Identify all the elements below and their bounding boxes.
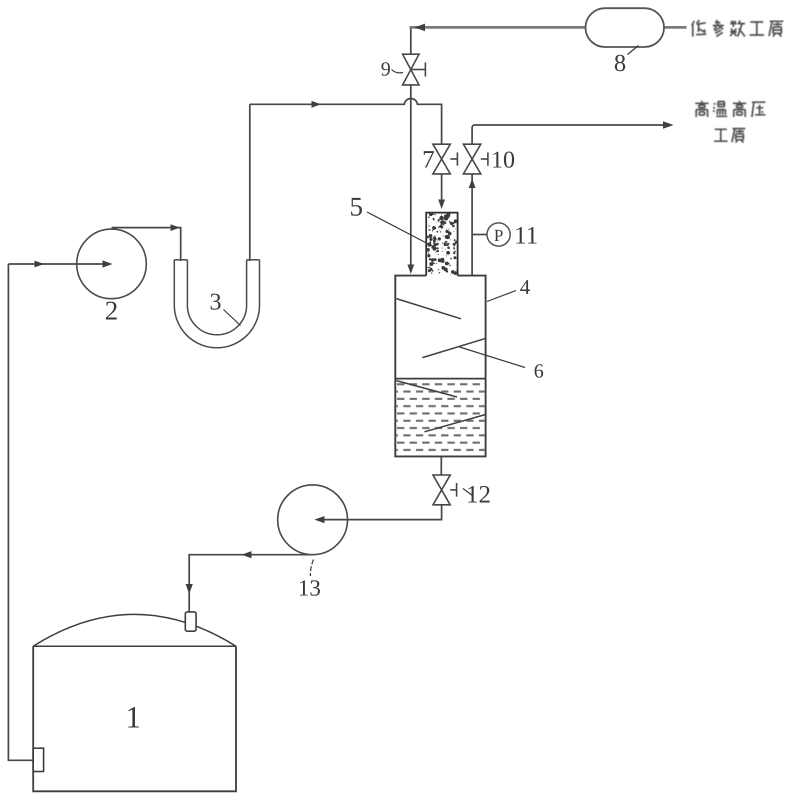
U-tube 3: [174, 260, 259, 348]
baffle 6 (lower) in vessel 4: [422, 338, 486, 357]
svg-text:7: 7: [422, 147, 435, 174]
arrow above tank 1 nozzle pointing down: [186, 584, 193, 594]
tank 1 dome: [33, 614, 236, 646]
svg-text:10: 10: [491, 148, 515, 174]
svg-text:4: 4: [520, 275, 531, 299]
wire: capsule-8 line down to valve 9: [410, 27, 412, 54]
arrow above vessel 4 top pointing down: [407, 265, 414, 275]
arrow at pump 2 centre pointing right: [103, 260, 113, 267]
wire: pump 13 outlet to tank 1 nozzle: [189, 555, 313, 612]
wire: top header y=104 with jump over valve-9 line, down to valve 7: [250, 99, 442, 145]
svg-text:9: 9: [381, 59, 391, 81]
wire: valve 9 down to vessel 4 top: [410, 85, 412, 268]
wire: vessel 4 bottom down to valve 12: [440, 456, 442, 475]
wire: valve 10 up and right to discharge arrow: [472, 125, 667, 144]
baffle in liquid (upper): [396, 381, 457, 397]
valve 7: [433, 144, 458, 174]
arrow on top header pointing right: [312, 101, 322, 108]
wire: pump 2 inlet horizontal: [8, 263, 109, 265]
arrow on capsule line pointing left: [415, 24, 426, 32]
text: low parameter working fluid (CJK drawn strokes): [692, 20, 784, 36]
valve 12: [433, 475, 457, 505]
wire: gauge 11 connection: [473, 234, 487, 236]
pump 2: [77, 229, 147, 299]
tank 1 top edge: [33, 645, 236, 647]
arrow on pump2 inlet (mid): [35, 261, 45, 268]
wire: U-tube right arm riser to top header: [249, 104, 251, 261]
pump 13: [278, 485, 348, 555]
arrow on pump 13 outlet pointing left: [242, 551, 252, 558]
svg-text:6: 6: [534, 360, 544, 382]
tank 1 side outlet nozzle: [33, 748, 43, 771]
arrow above packed column 5 pointing down: [438, 200, 445, 210]
wire: pump 2 outlet to U-tube left arm: [112, 228, 181, 261]
arrow under valve 10 pointing up: [469, 179, 476, 189]
tank 1 inlet nozzle: [185, 612, 196, 631]
arrow at pump 13 centre pointing left: [315, 516, 325, 523]
pressure gauge 11: [487, 223, 510, 246]
wire: valve 7 down to packed column 5: [441, 174, 443, 203]
valve 10: [463, 144, 488, 174]
svg-text:P: P: [494, 226, 503, 245]
vessel 4 shell: [395, 276, 485, 457]
wire: vessel 4 top up through valve 10: [471, 174, 473, 276]
wire: tank outlet riser (left vertical pipe to pump 2 inlet): [8, 264, 33, 760]
tank 1 body: [33, 646, 236, 791]
svg-text:3: 3: [210, 289, 222, 315]
wire: pipe continuation into pump 13 centre: [324, 519, 347, 521]
arrow on pump 2 outlet: [171, 224, 181, 231]
svg-text:1: 1: [126, 700, 142, 735]
svg-text:5: 5: [350, 191, 364, 221]
svg-text:12: 12: [466, 482, 491, 509]
svg-text:11: 11: [514, 223, 538, 250]
wire: top gray line from valve 9 corner to capsule 8 and beyond: [410, 26, 586, 29]
arrow to discharge text pointing right: [663, 121, 674, 129]
capsule vessel 8: [586, 8, 665, 47]
text: high temp high pressure working fluid (CJK drawn strokes): [695, 101, 765, 143]
wire: valve 12 down and left to pump 13: [318, 505, 442, 520]
valve 9: [403, 54, 426, 85]
svg-text:2: 2: [105, 296, 119, 326]
svg-text:8: 8: [614, 50, 626, 77]
liquid surface line: [395, 378, 485, 380]
svg-text:13: 13: [298, 575, 321, 600]
wire: pump 2 inlet continuation to centre: [77, 263, 103, 265]
packed column 5 (stippled): [426, 213, 457, 276]
baffle in liquid (lower): [425, 415, 486, 432]
baffle (upper) in vessel 4: [396, 299, 461, 319]
liquid holdup (dashed fill): [396, 380, 484, 455]
